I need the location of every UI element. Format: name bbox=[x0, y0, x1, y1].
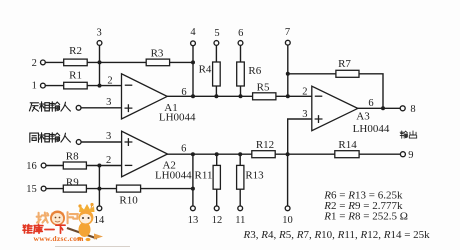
svg-text:LH0044: LH0044 bbox=[353, 123, 390, 135]
svg-text:3: 3 bbox=[106, 131, 111, 142]
svg-text:4: 4 bbox=[190, 27, 196, 38]
svg-text:12: 12 bbox=[212, 215, 223, 226]
svg-text:R2: R2 bbox=[69, 45, 82, 57]
svg-text:2: 2 bbox=[106, 155, 111, 166]
svg-text:10: 10 bbox=[282, 215, 293, 226]
svg-text:9: 9 bbox=[408, 150, 413, 161]
svg-text:R13: R13 bbox=[245, 170, 264, 182]
svg-text:R6: R6 bbox=[248, 65, 261, 77]
svg-text:11: 11 bbox=[235, 215, 245, 226]
svg-text:R5: R5 bbox=[257, 82, 270, 94]
svg-text:3: 3 bbox=[106, 97, 111, 108]
svg-text:R14: R14 bbox=[338, 139, 357, 151]
svg-text:R9: R9 bbox=[66, 176, 79, 188]
svg-text:6: 6 bbox=[238, 28, 243, 39]
svg-text:2: 2 bbox=[302, 87, 307, 98]
svg-text:2: 2 bbox=[32, 58, 37, 69]
svg-text:R10: R10 bbox=[119, 195, 138, 207]
svg-text:www.dzsc.com: www.dzsc.com bbox=[34, 234, 85, 243]
svg-text:7: 7 bbox=[285, 27, 290, 38]
svg-text:2: 2 bbox=[107, 76, 112, 87]
svg-text:R11: R11 bbox=[195, 170, 213, 182]
svg-text:R1: R1 bbox=[69, 70, 82, 82]
svg-text:R12: R12 bbox=[256, 139, 274, 151]
svg-text:R8: R8 bbox=[66, 150, 79, 162]
svg-text:13: 13 bbox=[188, 215, 199, 226]
svg-text:14: 14 bbox=[94, 215, 105, 226]
svg-text:5: 5 bbox=[214, 28, 219, 39]
svg-text:LH0044: LH0044 bbox=[159, 111, 196, 123]
svg-text:R3: R3 bbox=[151, 48, 164, 60]
svg-text:16: 16 bbox=[26, 161, 37, 172]
svg-text:R3, R4, R5, R7, R10, R11, R12,: R3, R4, R5, R7, R10, R11, R12, R14 = 25k bbox=[243, 229, 431, 241]
svg-text:R1 = R8 = 252.5 Ω: R1 = R8 = 252.5 Ω bbox=[323, 211, 408, 223]
svg-text:A3: A3 bbox=[356, 111, 370, 123]
svg-text:6: 6 bbox=[181, 87, 186, 98]
svg-text:R4: R4 bbox=[199, 64, 212, 76]
svg-text:6: 6 bbox=[368, 98, 373, 109]
svg-text:6: 6 bbox=[181, 144, 186, 155]
svg-text:15: 15 bbox=[26, 184, 37, 195]
svg-text:8: 8 bbox=[410, 104, 415, 115]
svg-text:3: 3 bbox=[96, 28, 101, 39]
svg-text:LH0044: LH0044 bbox=[155, 169, 192, 181]
svg-text:R7: R7 bbox=[338, 58, 351, 70]
svg-text:1: 1 bbox=[32, 81, 37, 92]
svg-text:3: 3 bbox=[302, 109, 307, 120]
